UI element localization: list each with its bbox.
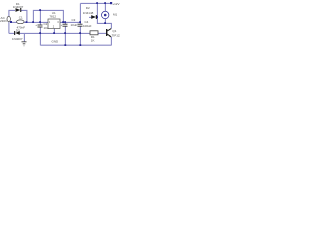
diode D1: [16, 8, 22, 12]
capacitor C1: [17, 20, 25, 24]
wire motor top lead: [104, 3, 106, 11]
svg-text:100uF: 100uF: [83, 24, 92, 28]
junction node x80 y44: [79, 44, 81, 46]
diode D3 flyback: [91, 15, 97, 19]
svg-text:D3: D3: [16, 28, 20, 32]
junction node x40 y33: [39, 32, 41, 34]
svg-text:+12V: +12V: [112, 2, 119, 6]
svg-text:TIP122: TIP122: [112, 34, 120, 38]
svg-text:10uF: 10uF: [71, 23, 78, 27]
wire D2 to resistor R1: [20, 32, 90, 34]
junction node x33 y22: [32, 21, 34, 23]
junction node x26 y22: [26, 21, 28, 23]
motor M1: [102, 11, 109, 18]
junction node x97 y3: [96, 2, 98, 4]
junction node x54 y33: [53, 32, 55, 34]
junction node x80 y22: [79, 21, 81, 23]
junction node x40 y22: [39, 21, 41, 23]
svg-text:1N4007: 1N4007: [13, 5, 24, 9]
svg-text:C1: C1: [19, 15, 23, 19]
wire C4 bottom lead: [79, 26, 81, 45]
junction node x97 y17: [96, 16, 98, 18]
junction node x65 y44: [64, 44, 66, 46]
wire AC bottom vertical: [8, 22, 10, 34]
wire C3 bottom lead: [64, 26, 66, 45]
transistor Q1: [106, 29, 111, 37]
svg-text:D2: D2: [86, 6, 90, 10]
wire vertical x40 from rail to C2: [39, 10, 41, 24]
earth ground symbol: [22, 42, 27, 46]
svg-text:7812: 7812: [49, 15, 56, 19]
wire x97 vertical to collector rail: [97, 3, 111, 28]
junction node x105 y3: [104, 2, 106, 4]
junction node x80 y33: [79, 32, 81, 34]
wire motor bottom lead: [104, 19, 106, 24]
wire bottom ground rail: [40, 44, 111, 46]
wire C2 bottom to ground rail: [39, 27, 41, 45]
wire C1 right along y22 to C4 lead: [24, 21, 48, 23]
wire D1 cathode to corner at x26: [21, 10, 27, 22]
wire top rail segment B: [33, 10, 63, 22]
svg-text:M1: M1: [113, 12, 117, 16]
svg-text:GND: GND: [52, 39, 60, 43]
IC U1 regulator box: [48, 19, 60, 29]
svg-text:+: +: [35, 23, 37, 27]
wire IC output y22: [60, 21, 80, 23]
svg-text:+: +: [61, 23, 63, 27]
terminal node +12V: [110, 2, 112, 4]
junction node at C1 left terminal: [10, 21, 12, 23]
junction node x40 y10: [39, 9, 41, 11]
resistor R1: [90, 31, 98, 35]
wire AC return y33 left of D2: [9, 32, 15, 34]
wire AC top vertical and rail to D1: [9, 10, 15, 17]
svg-text:1N4007: 1N4007: [12, 37, 23, 41]
wire IC gnd pin stub: [53, 29, 55, 34]
wire C3 lead: [64, 22, 66, 24]
junction node x65 y22: [64, 21, 66, 23]
capacitor C2 plates: [38, 25, 43, 27]
junction node x63 y22: [62, 21, 64, 23]
diode D2 return: [14, 31, 20, 35]
svg-text:Q1: Q1: [112, 29, 116, 33]
svg-text:1N4148: 1N4148: [83, 11, 94, 15]
svg-text:230V: 230V: [0, 19, 7, 23]
junction node x105 y23: [104, 22, 106, 24]
wire ground stub: [23, 33, 25, 41]
wire R1 to base: [98, 32, 106, 34]
wire D3 anode stub: [89, 16, 91, 18]
wire +12V rail down x80: [79, 3, 81, 24]
wire +12V top rail: [80, 2, 111, 4]
capacitor C3 plates: [63, 24, 68, 26]
svg-text:C3: C3: [72, 18, 76, 22]
junction node x65 y33: [64, 32, 66, 34]
svg-text:1K: 1K: [91, 38, 95, 42]
wire node to C1 left: [11, 21, 17, 23]
wire emitter to ground rail: [110, 37, 112, 45]
capacitor C4 plates: [78, 24, 83, 26]
AC source V1: [7, 16, 10, 21]
